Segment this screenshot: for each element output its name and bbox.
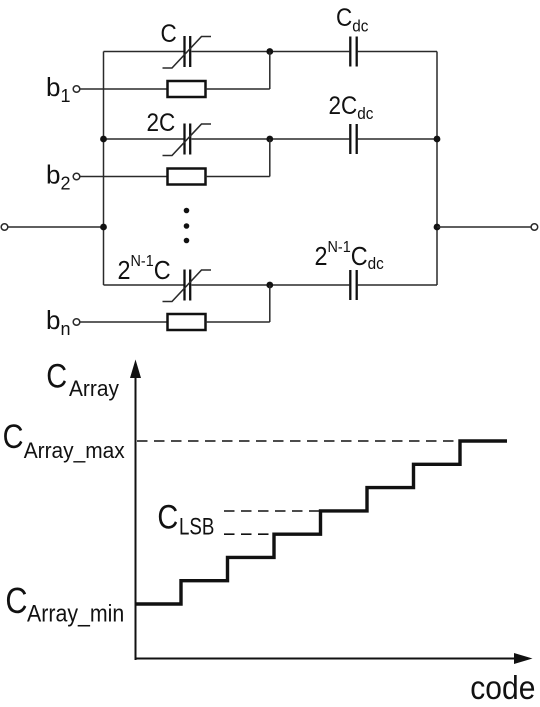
x axis arrowhead xyxy=(514,653,533,664)
x axis line xyxy=(135,658,517,660)
node B junction dot branch2 xyxy=(266,136,273,143)
node A junction dot branch1 xyxy=(266,48,273,55)
wire branch3 right segment xyxy=(358,284,437,286)
svg-text:Array_min: Array_min xyxy=(27,600,124,627)
terminal b1 circle xyxy=(73,86,80,93)
wire node C vertical xyxy=(269,285,271,322)
terminal input circle xyxy=(1,224,8,231)
wire node A vertical xyxy=(269,52,271,90)
variable capacitor C trimmer arrow xyxy=(163,37,212,69)
wire bn to switch xyxy=(80,321,168,323)
wire output xyxy=(437,226,531,228)
capacitor 2^N-1 Cdc plates xyxy=(350,270,356,300)
capacitor Cdc plates xyxy=(350,37,356,67)
wire branch1 right segment xyxy=(358,51,437,53)
wire right bus vertical xyxy=(436,52,438,286)
junction dot input node xyxy=(100,224,107,231)
wire switch S1 to node A xyxy=(206,88,270,90)
variable capacitor C plates xyxy=(185,36,191,67)
svg-text:C: C xyxy=(46,356,67,395)
svg-text:code: code xyxy=(470,669,535,702)
junction dot output node xyxy=(434,224,441,231)
wire branch1 middle segment xyxy=(192,51,350,53)
wire branch2 middle segment xyxy=(192,138,350,140)
switch S1 box xyxy=(168,81,206,97)
variable capacitor 2^N-1 C trimmer arrow xyxy=(163,270,212,302)
switch Sn box xyxy=(168,314,206,330)
node C junction dot branch3 xyxy=(266,282,273,289)
svg-text:Array_max: Array_max xyxy=(24,438,125,463)
variable capacitor 2^N-1 C plates xyxy=(185,270,191,301)
wire branch2 left segment xyxy=(104,138,184,140)
svg-text:C: C xyxy=(161,20,177,48)
wire branch2 right segment xyxy=(358,138,437,140)
dashed line C_LSB upper xyxy=(224,510,321,512)
wire b1 to switch xyxy=(80,88,168,90)
ellipsis dots xyxy=(184,208,190,244)
dashed line C_Array_max level xyxy=(137,440,456,442)
svg-text:C: C xyxy=(157,497,178,536)
terminal bn circle xyxy=(73,319,80,326)
y axis line xyxy=(135,375,137,660)
svg-text:C: C xyxy=(3,417,24,456)
terminal output circle xyxy=(531,224,538,231)
terminal b2 circle xyxy=(73,173,80,180)
wire input to left bus xyxy=(8,226,104,228)
svg-text:2C: 2C xyxy=(147,109,176,137)
junction dot right bus branch2 xyxy=(434,136,441,143)
wire branch3 left segment xyxy=(104,284,184,286)
svg-text:LSB: LSB xyxy=(179,513,214,540)
wire b2 to switch xyxy=(80,176,168,178)
variable capacitor 2C plates xyxy=(185,124,191,155)
junction dot left bus branch2 xyxy=(100,136,107,143)
staircase curve xyxy=(136,441,508,604)
variable capacitor 2C trimmer arrow xyxy=(163,124,212,156)
wire switch Sn to node C xyxy=(206,321,270,323)
wire switch S2 to node B xyxy=(206,176,270,178)
wire node B vertical xyxy=(269,139,271,177)
wire branch3 middle segment xyxy=(192,284,350,286)
capacitor 2Cdc plates xyxy=(350,124,356,154)
switch S2 box xyxy=(168,169,206,185)
wire left bus vertical xyxy=(103,52,105,286)
wire branch1 left segment xyxy=(104,51,184,53)
svg-text:C: C xyxy=(5,582,27,622)
dashed line C_LSB lower xyxy=(224,533,274,535)
svg-text:Array: Array xyxy=(69,376,119,401)
y axis arrowhead xyxy=(130,360,141,379)
